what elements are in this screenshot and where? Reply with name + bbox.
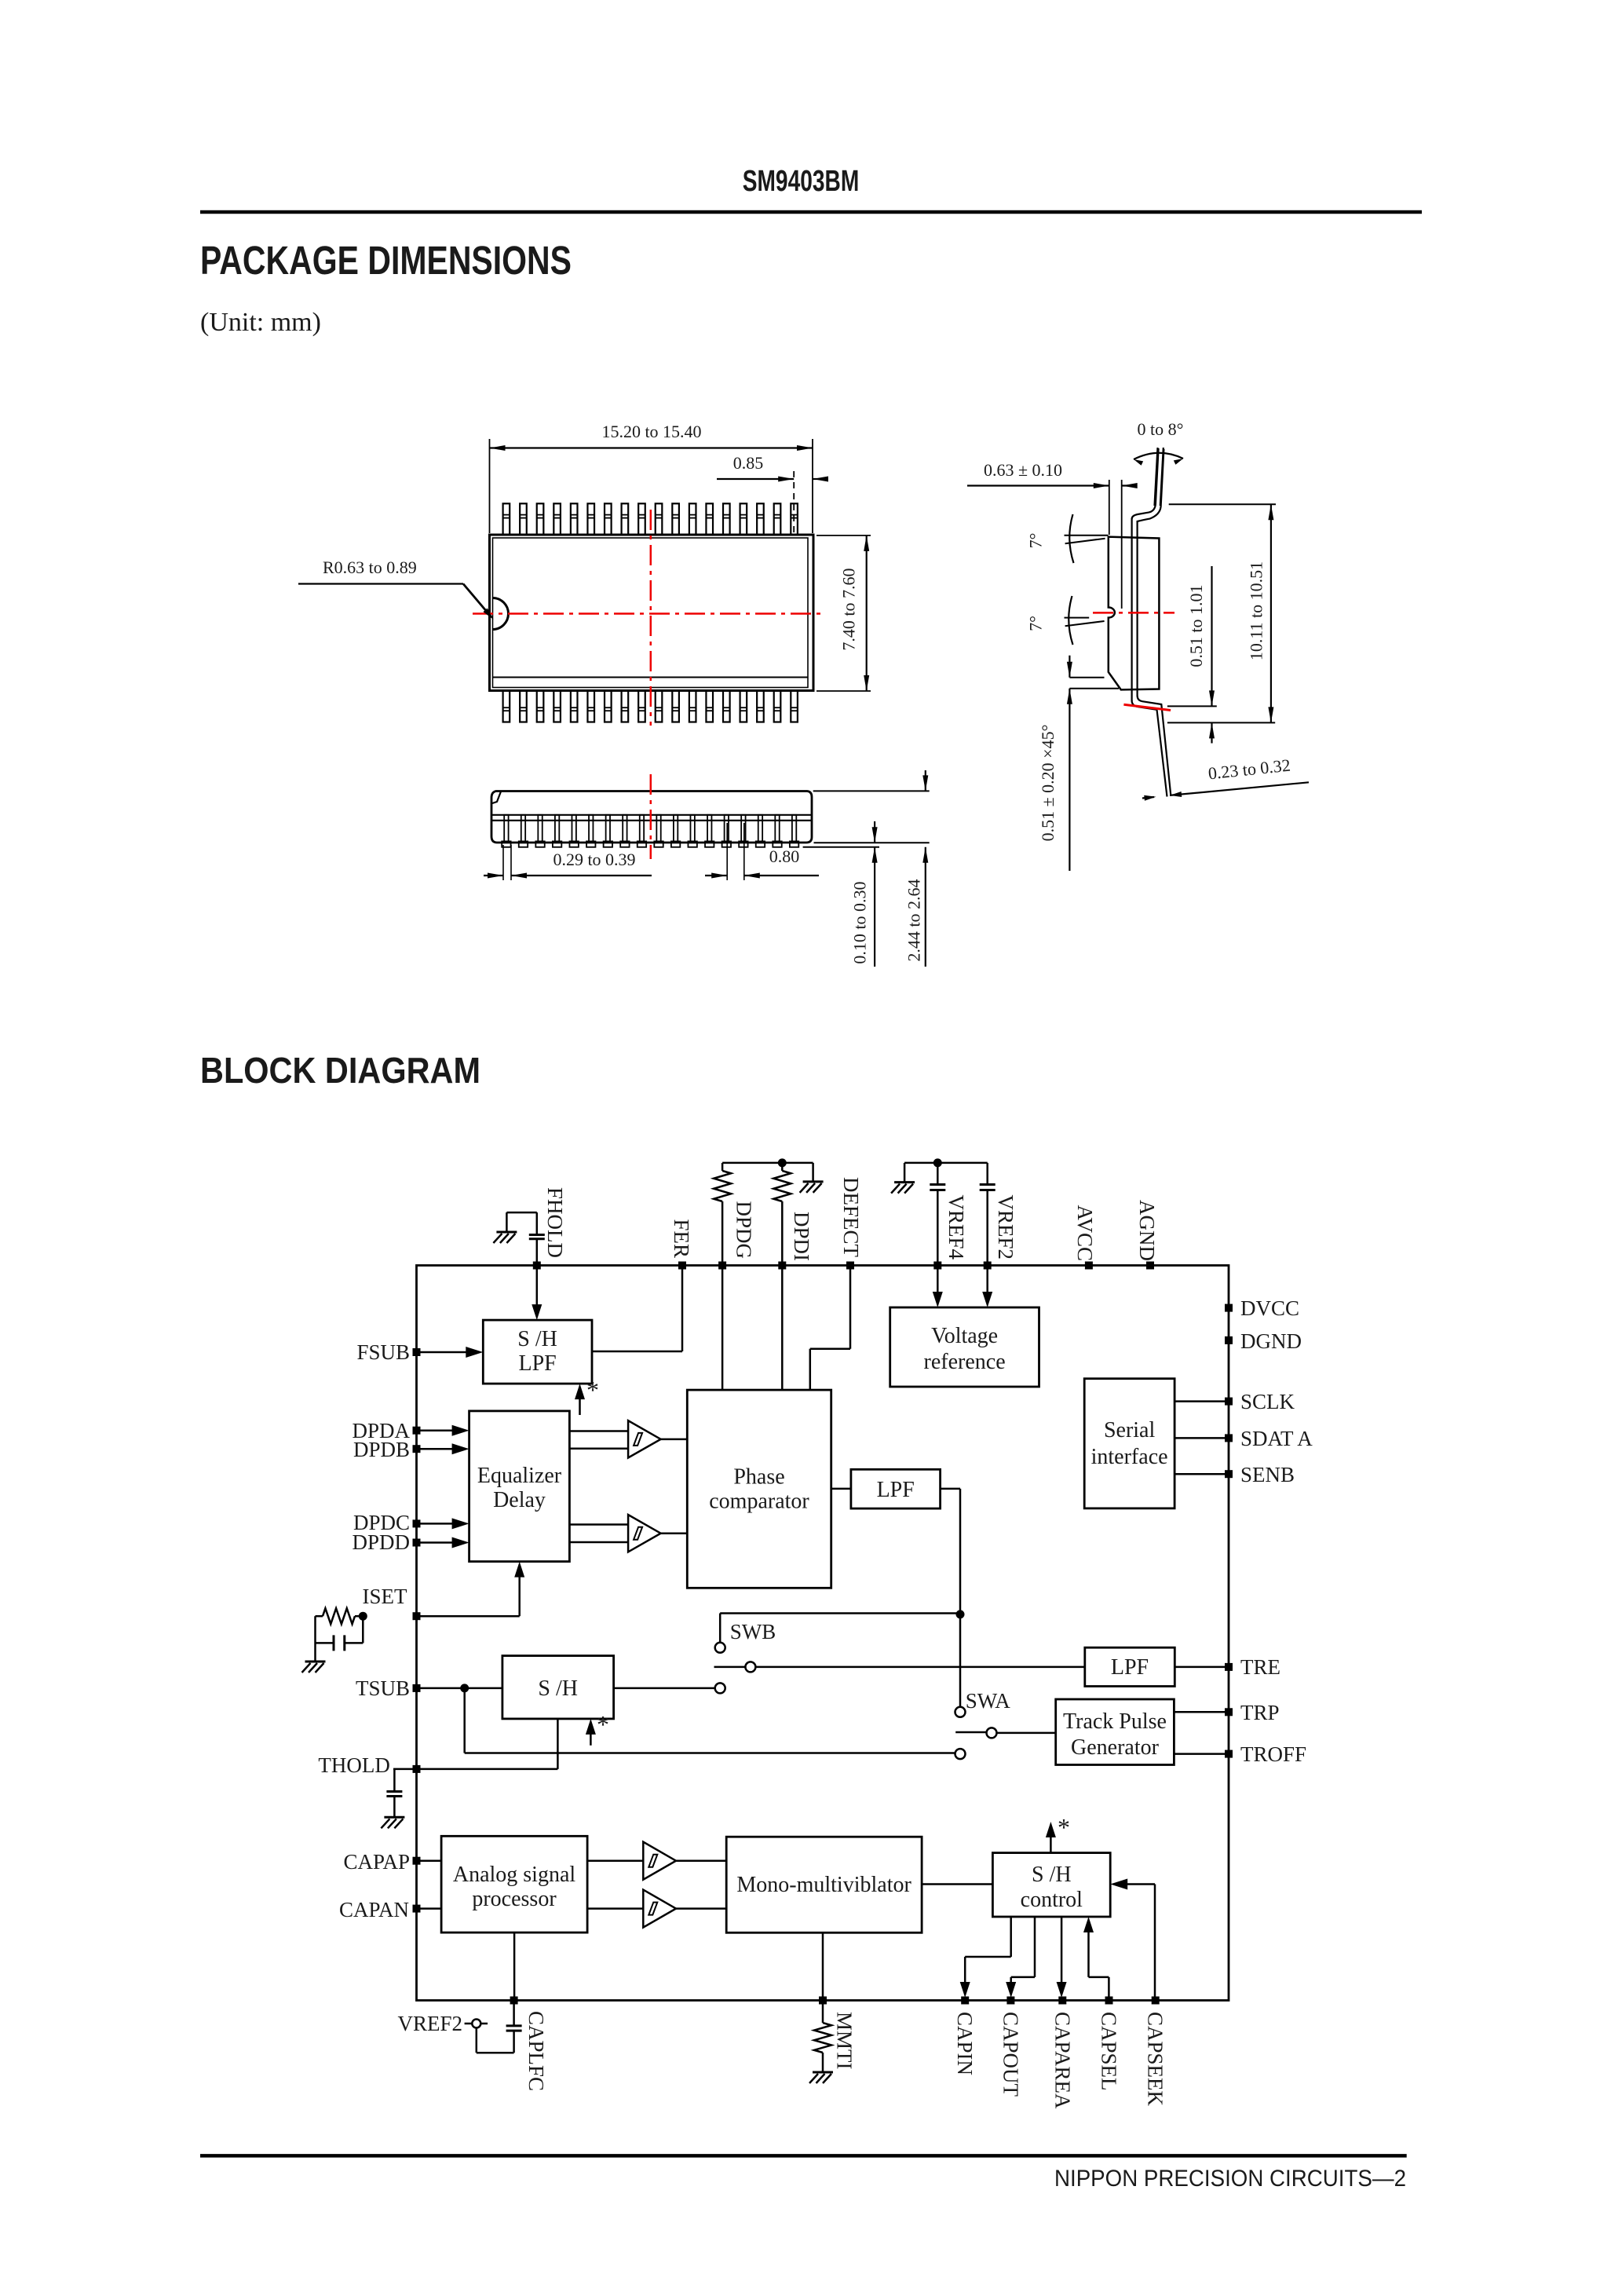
wire DPDG to phase comparator [721, 1269, 724, 1390]
svg-text:Phase: Phase [733, 1465, 784, 1490]
package side view body outline [491, 792, 812, 843]
block Track Pulse Generator [1056, 1699, 1174, 1765]
wire DPDI to phase comparator [781, 1269, 784, 1390]
pin square AGND [1146, 1262, 1154, 1270]
wire buffer4 to mono-multivibrator [676, 1907, 726, 1910]
svg-text:DPDD: DPDD [352, 1530, 410, 1554]
wire THOLD [393, 1768, 413, 1771]
pin square TSUB [413, 1684, 421, 1692]
wire phase comparator to LPF [831, 1488, 851, 1490]
end view package body [1109, 537, 1160, 690]
svg-text:0.51 ± 0.20 ×45°: 0.51 ± 0.20 ×45° [1038, 725, 1058, 842]
svg-text:*: * [1058, 1813, 1070, 1841]
svg-text:THOLD: THOLD [318, 1753, 389, 1777]
svg-text:0.10 to 0.30: 0.10 to 0.30 [850, 881, 870, 963]
pin square DVCC [1225, 1304, 1233, 1312]
pin square SDATA [1225, 1434, 1233, 1442]
wire DPDC into equalizer [420, 1523, 464, 1525]
svg-text:Mono-multiviblator: Mono-multiviblator [736, 1873, 911, 1897]
pin square SCLK [1225, 1398, 1233, 1406]
wire ASP to buffer4 [587, 1907, 643, 1910]
svg-text:MMTI: MMTI [833, 2012, 857, 2070]
svg-text:FSUB: FSUB [356, 1340, 410, 1364]
svg-text:TROFF: TROFF [1240, 1742, 1306, 1766]
block Mono-multiviblator [726, 1837, 922, 1932]
pin square DEFECT [846, 1262, 854, 1270]
bottom row of 18 pins (top view) [503, 691, 510, 722]
svg-text:DGND: DGND [1240, 1329, 1302, 1353]
svg-text:0.63 ± 0.10: 0.63 ± 0.10 [984, 460, 1062, 480]
wire SWA pole to track pulse generator [997, 1732, 1056, 1735]
wire ISET ground leg [314, 1616, 316, 1662]
resistor at ISET [355, 1615, 363, 1618]
wire S/H control to CAPIN [1010, 1917, 1012, 1957]
pin square VREF4 [933, 1262, 941, 1270]
svg-text:2.44 to 2.64: 2.44 to 2.64 [904, 879, 924, 961]
pin square TRP [1225, 1708, 1233, 1716]
wire SDATA [1174, 1437, 1225, 1439]
pin square THOLD [413, 1765, 421, 1773]
pin square FHOLD [533, 1262, 541, 1270]
star arrow out of S/H control top [1050, 1827, 1052, 1853]
svg-text:TSUB: TSUB [356, 1676, 410, 1700]
capacitor at FHOLD [536, 1239, 539, 1262]
pin square DPDA [413, 1427, 421, 1435]
svg-text:reference: reference [924, 1350, 1006, 1374]
svg-text:Voltage: Voltage [931, 1324, 998, 1348]
wire buffer1 to phase comparator [661, 1439, 688, 1441]
svg-text:TRP: TRP [1240, 1701, 1280, 1724]
buffer U1 (hysteresis) [628, 1420, 661, 1457]
side view body lines [491, 814, 812, 816]
svg-text:Analog signal: Analog signal [453, 1863, 576, 1887]
junction dot at DPDI top [778, 1158, 787, 1167]
package body inner line [493, 677, 809, 678]
wire S/H control to CAPOUT [1034, 1917, 1036, 1977]
buffer U4 (hysteresis) [643, 1890, 676, 1928]
svg-text:0.29 to 0.39: 0.29 to 0.39 [553, 850, 635, 869]
svg-text:PACKAGE DIMENSIONS: PACKAGE DIMENSIONS [200, 238, 572, 283]
wire FER [681, 1269, 684, 1351]
side view extension lines right [813, 790, 930, 792]
svg-text:comparator: comparator [709, 1490, 809, 1514]
end view lead tip [1155, 448, 1158, 506]
svg-text:FHOLD: FHOLD [543, 1187, 567, 1258]
svg-text:*: * [597, 1710, 609, 1738]
svg-text:CAPSEL: CAPSEL [1098, 2012, 1121, 2091]
svg-text:CAPLFC: CAPLFC [524, 2011, 548, 2091]
ground at THOLD capacitor [384, 1816, 404, 1819]
end view gull-wing lead [1131, 518, 1132, 701]
svg-text:7°: 7° [1026, 533, 1046, 549]
pin square DPDD [413, 1539, 421, 1547]
svg-text:ISET: ISET [363, 1585, 408, 1608]
pin square VREF2 (top) [984, 1262, 992, 1270]
pin square CAPOUT [1006, 1997, 1014, 2005]
svg-text:0 to 8°: 0 to 8° [1138, 419, 1184, 439]
resistor at DPDI [781, 1163, 784, 1171]
block Voltage reference [890, 1307, 1039, 1387]
wire LPF to TRE [1174, 1666, 1225, 1669]
svg-text:AGND: AGND [1135, 1200, 1159, 1261]
ground at DPDG/DPDI net [812, 1163, 814, 1182]
side view 18 pins with feet [504, 815, 508, 842]
svg-text:CAPAREA: CAPAREA [1050, 2012, 1074, 2109]
wire buffer3 to mono-multivibrator [676, 1859, 726, 1862]
star arrow into S/H LPF bottom [579, 1389, 581, 1415]
pin square DGND [1225, 1336, 1233, 1344]
pin square SENB [1225, 1470, 1233, 1478]
wire TSUB branch down to SWA [463, 1688, 466, 1753]
svg-text:*: * [586, 1376, 599, 1404]
pin square DPDC [413, 1519, 421, 1527]
junction dot at VREF4 top [933, 1158, 942, 1167]
capacitor at THOLD [393, 1769, 396, 1791]
pin square FSUB [413, 1348, 421, 1356]
pin square CAPLFC [510, 1997, 518, 2005]
wire LPF output to SWA/SWB node [941, 1488, 960, 1490]
wire ISET to equalizer bottom [420, 1615, 520, 1618]
block S/H (tracking) [502, 1656, 614, 1719]
svg-text:VREF4: VREF4 [944, 1194, 968, 1260]
net VREF4 VREF2 top wire [904, 1162, 988, 1164]
wire DPDA into equalizer [420, 1429, 464, 1431]
wire CAPSEL to S/H control [1083, 1917, 1094, 1932]
buffer U3 (hysteresis) [643, 1842, 676, 1880]
svg-text:(Unit: mm): (Unit: mm) [200, 308, 321, 337]
pin-1 notch semicircle [493, 598, 509, 630]
svg-text:DPDB: DPDB [353, 1438, 410, 1461]
svg-text:VREF2: VREF2 [994, 1194, 1017, 1260]
wire SWB pole to LPF (TRE) [755, 1666, 1084, 1669]
junction dot TSUB [460, 1684, 469, 1692]
ground at ISET network [305, 1661, 326, 1663]
svg-text:Track Pulse: Track Pulse [1063, 1709, 1167, 1734]
pin square CAPSEEK [1152, 1997, 1160, 2005]
arrow VREF4 into voltage reference [937, 1269, 939, 1303]
block Equalizer Delay [469, 1411, 570, 1562]
package top view body [490, 535, 814, 691]
svg-text:processor: processor [472, 1887, 557, 1911]
top row of 18 pins (top view) [503, 503, 510, 535]
svg-text:7.40 to 7.60: 7.40 to 7.60 [839, 568, 859, 650]
svg-text:VREF2: VREF2 [397, 2012, 462, 2035]
capacitor at VREF4 [937, 1163, 939, 1185]
wire mono to S/H control [922, 1883, 992, 1885]
chip boundary rectangle [417, 1266, 1229, 2001]
wire ASP bottom to CAPLFC [513, 1932, 516, 1997]
svg-text:0.85: 0.85 [733, 453, 764, 473]
svg-text:LPF: LPF [1111, 1655, 1149, 1680]
ground at VREF net [904, 1163, 906, 1183]
wire CAPAN [420, 1907, 441, 1910]
svg-text:Delay: Delay [493, 1488, 546, 1512]
svg-text:SM9403BM: SM9403BM [743, 165, 860, 198]
block LPF (phase) [851, 1469, 941, 1508]
svg-text:S /H: S /H [538, 1676, 578, 1701]
pin square CAPAP [413, 1857, 421, 1865]
block S/H LPF [483, 1320, 592, 1384]
svg-text:Serial: Serial [1104, 1418, 1156, 1442]
wire CAPAP [420, 1859, 441, 1862]
wire SCLK [1174, 1400, 1225, 1402]
ground at MMTI [813, 2071, 833, 2074]
svg-text:interface: interface [1091, 1445, 1168, 1469]
svg-text:NIPPON PRECISION CIRCUITS—2: NIPPON PRECISION CIRCUITS—2 [1054, 2166, 1406, 2192]
capacitor at VREF2 (top) [986, 1163, 988, 1185]
svg-text:LPF: LPF [877, 1478, 915, 1502]
svg-text:FER: FER [670, 1219, 693, 1258]
svg-text:10.11 to 10.51: 10.11 to 10.51 [1247, 561, 1266, 660]
contact circle VREF2 (bottom) [472, 2020, 480, 2028]
svg-text:Equalizer: Equalizer [477, 1464, 562, 1488]
svg-text:DVCC: DVCC [1240, 1296, 1299, 1320]
svg-text:SDAT A: SDAT A [1240, 1427, 1313, 1450]
svg-text:CAPAP: CAPAP [343, 1850, 410, 1874]
svg-text:7°: 7° [1026, 616, 1046, 631]
footer rule [200, 2154, 1407, 2158]
svg-text:0.80: 0.80 [769, 846, 800, 866]
pin square AVCC [1085, 1262, 1093, 1270]
wire TRP [1174, 1711, 1225, 1713]
wire TROFF [1174, 1753, 1225, 1755]
svg-text:DPDI: DPDI [790, 1212, 813, 1261]
wire FSUB into S/H LPF [420, 1351, 478, 1354]
resistor at DPDG [721, 1163, 724, 1171]
wire CAPSEEK to S/H control [1154, 1885, 1156, 1998]
red horizontal center line (top view) [473, 612, 824, 615]
pin square MMTI [819, 1997, 827, 2005]
pin square DPDB [413, 1445, 421, 1453]
svg-text:CAPSEEK: CAPSEEK [1144, 2012, 1167, 2107]
svg-text:control: control [1021, 1888, 1083, 1912]
pin square DPDI [778, 1262, 786, 1270]
svg-text:CAPOUT: CAPOUT [999, 2012, 1022, 2097]
red seating line at lead foot [1123, 704, 1171, 710]
svg-text:15.20 to 15.40: 15.20 to 15.40 [601, 422, 701, 441]
svg-text:DPDG: DPDG [732, 1201, 756, 1259]
capacitor at ISET [362, 1616, 364, 1643]
svg-text:CAPIN: CAPIN [953, 2012, 977, 2075]
block Phase comparator [687, 1390, 831, 1588]
wire buffer2 to phase comparator [661, 1532, 688, 1534]
red vertical center line (side view) [650, 774, 652, 859]
header rule [200, 210, 1422, 214]
pin square CAPIN [961, 1997, 969, 2005]
block S/H control [992, 1853, 1110, 1917]
wire DPDD into equalizer [420, 1541, 464, 1544]
buffer U2 (hysteresis) [628, 1515, 661, 1552]
wire DPDB into equalizer [420, 1448, 464, 1450]
svg-text:SENB: SENB [1240, 1463, 1295, 1486]
svg-text:SWB: SWB [730, 1620, 776, 1643]
resistor MMTI [822, 2004, 824, 2023]
pin square CAPSEL [1105, 1997, 1113, 2005]
svg-text:TRE: TRE [1240, 1655, 1280, 1679]
block Analog signal processor [441, 1836, 587, 1932]
wire S/H output to SWB [614, 1687, 715, 1690]
side view index notch [492, 792, 501, 803]
wire equalizer to buffer1 (pair) [569, 1430, 628, 1432]
svg-text:0.51 to 1.01: 0.51 to 1.01 [1186, 584, 1206, 667]
svg-text:AVCC: AVCC [1073, 1205, 1097, 1261]
wire SENB [1174, 1473, 1225, 1475]
svg-text:Generator: Generator [1071, 1735, 1160, 1760]
wire S/H control to CAPAREA [1061, 1917, 1063, 1993]
wire TSUB into S/H [420, 1687, 502, 1690]
block Serial interface [1084, 1379, 1174, 1508]
net DPDG DPDI pull-up wire [722, 1162, 813, 1164]
pin square TROFF [1225, 1750, 1233, 1758]
wire ASP to buffer3 [587, 1859, 643, 1862]
wire CAPLFC to VREF2 contact [477, 2052, 514, 2054]
pin square CAPAN [413, 1905, 421, 1913]
svg-text:DEFECT: DEFECT [839, 1177, 863, 1258]
red center line (end view) [1093, 612, 1174, 614]
svg-text:SCLK: SCLK [1240, 1390, 1295, 1413]
pin square TRE [1225, 1663, 1233, 1671]
star arrow into S/H bottom [590, 1724, 592, 1746]
svg-text:BLOCK DIAGRAM: BLOCK DIAGRAM [200, 1050, 480, 1091]
block LPF (TRE) [1085, 1647, 1175, 1686]
wire DEFECT to phase comparator [849, 1269, 852, 1349]
wire equalizer to buffer2 (pair) [569, 1523, 628, 1526]
svg-text:S /H: S /H [517, 1327, 557, 1351]
wire mono bottom to MMTI [822, 1932, 824, 1997]
junction dot at ISET [359, 1612, 367, 1621]
svg-text:S /H: S /H [1032, 1863, 1072, 1887]
red vertical center line (top view) [650, 510, 652, 726]
svg-text:LPF: LPF [518, 1351, 556, 1376]
svg-text:CAPAN: CAPAN [339, 1898, 409, 1921]
pin square CAPAREA [1058, 1997, 1066, 2005]
pin square FER [678, 1262, 686, 1270]
ground at FHOLD capacitor [496, 1231, 517, 1234]
arrow VREF2 into voltage reference [986, 1269, 988, 1303]
svg-text:SWA: SWA [966, 1689, 1011, 1713]
pin square DPDG [718, 1262, 726, 1270]
svg-text:R0.63 to 0.89: R0.63 to 0.89 [323, 558, 417, 577]
pin square ISET [413, 1612, 421, 1620]
wire FHOLD to S/H LPF [536, 1269, 539, 1315]
capacitor CAPLFC [513, 2004, 515, 2025]
junction dot LPF output node [956, 1610, 965, 1618]
